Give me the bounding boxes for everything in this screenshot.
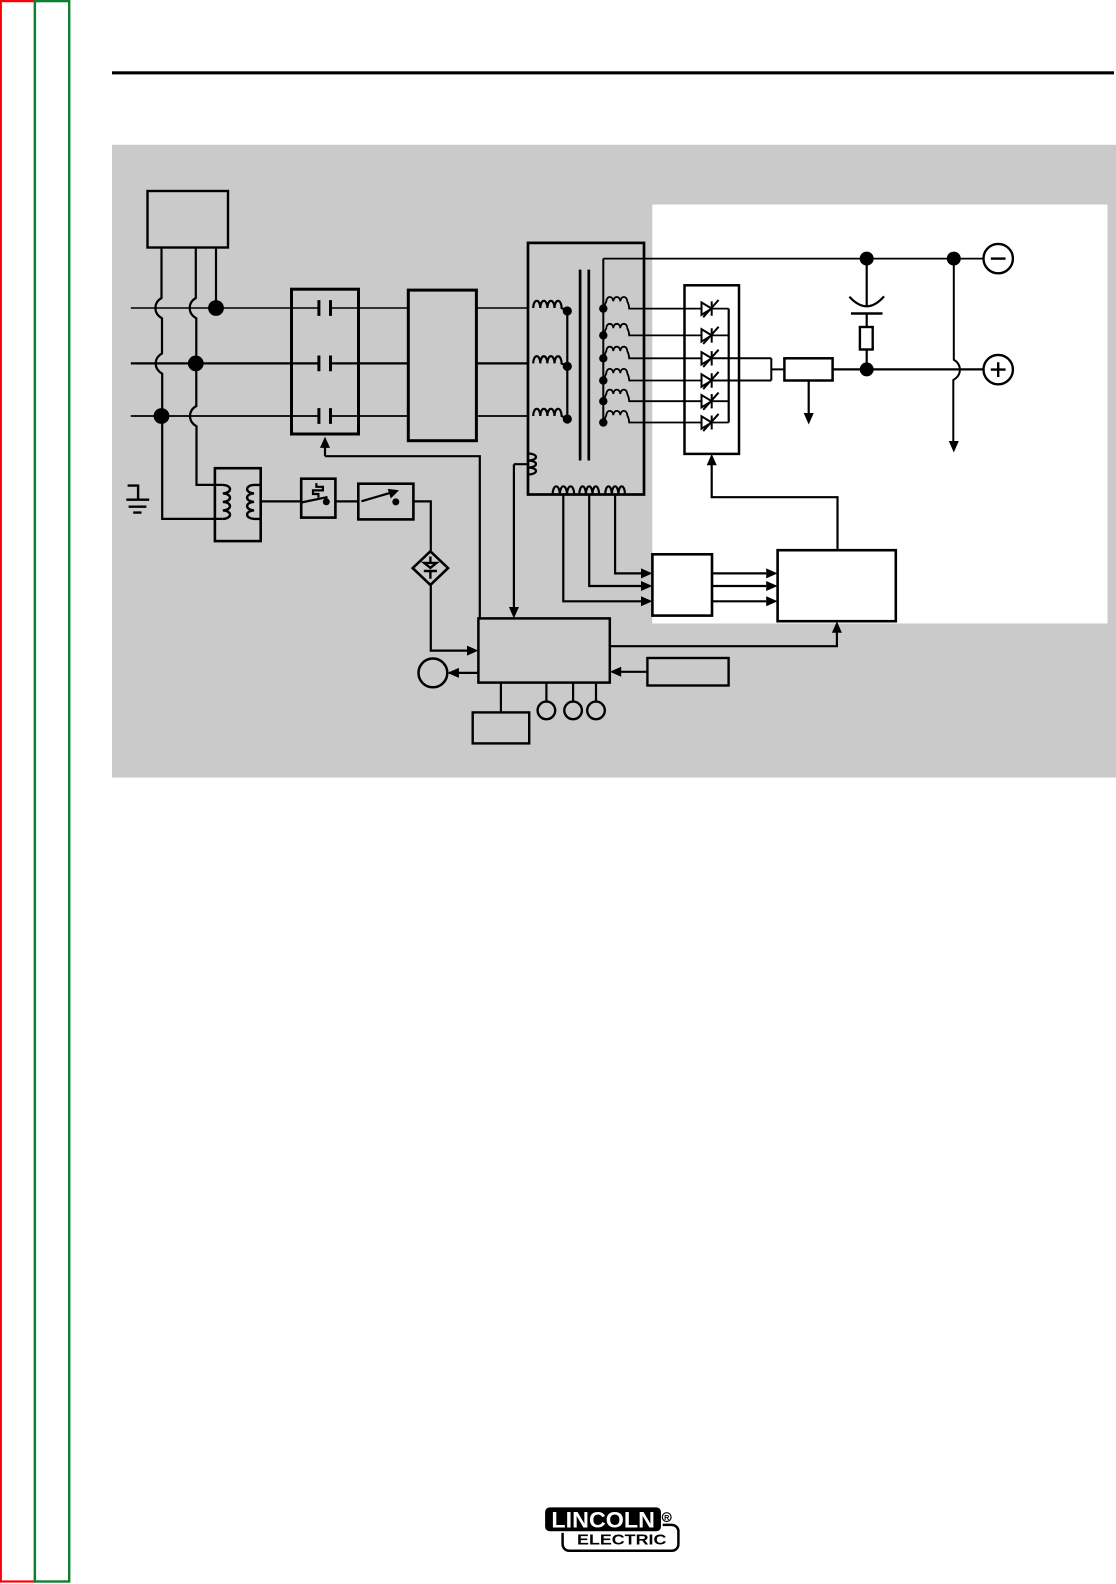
arrowhead link1 [766,568,777,578]
input plug box [148,191,229,248]
top horizontal rule [112,71,1114,74]
secondary winding S4 + lead to SCR4 [603,369,701,381]
arrowhead aux1 [641,596,652,606]
arrowhead into control board top [509,607,519,618]
Lincoln Electric logo: ELECTRIC white box [563,1525,679,1551]
wire: plug lead L2 (hops phase1, taps phase2, hops phase3) [190,248,223,485]
arrowhead into cap box bottom [320,437,330,448]
Lincoln Electric logo: LINCOLN black box (with white keyline) [545,1507,661,1531]
wire: aux lead 3 to interface box [615,495,641,574]
secondary winding S2 + lead to SCR2 [603,324,701,336]
wire: cap-switch control feed with up arrow into cap box [325,447,480,618]
arrowhead shunt sense [804,413,814,425]
snubber resistor [866,314,868,370]
interface box [652,554,712,615]
arrowhead aux2 [641,581,652,591]
primary winding P2 [533,356,567,366]
fan motor circle [419,659,448,688]
node: phase2 tap dot [189,357,203,371]
wire: scan coil lead down into control board (arrow) [513,464,515,608]
wire: stub to indicator 1 [545,683,547,702]
protection diode diamond [413,551,448,585]
wire: aux lead 2 to interface box [589,495,641,587]
primary winding P3 [533,409,567,419]
control transformer box [215,468,261,541]
SCR bridge box [685,285,740,454]
arrowhead switch blade [388,489,399,499]
node: secondary bus dots [599,304,607,426]
secondary common bus [602,259,604,423]
arrowhead link3 [766,596,777,606]
wire: control board output to firing circuit (arrow) [610,633,837,647]
SCR cathode bus [728,309,730,423]
SCR6 [702,414,729,431]
plus output terminal [984,355,1013,384]
wire: control secondary to thermostat [261,500,302,502]
node: negative bus dot at electrode drop [948,253,960,265]
arrowhead into motor [448,668,459,678]
wire: stub to indicator 3 [595,683,597,702]
wire: control board to mode box [500,683,502,713]
wire: firing gate lead up into SCR box [712,465,838,550]
wire: thermostat to power switch [335,500,358,502]
secondary winding S3 + lead to SCR3 [603,347,701,359]
auxiliary winding A1 on transformer bottom [553,486,575,494]
node: phase3 tap dot [155,409,169,423]
transformer core lines [580,270,589,461]
ground symbol [126,486,149,513]
control transformer secondary winding [247,485,261,519]
logo registered mark [662,1513,671,1522]
node: negative bus dot at snubber [861,253,873,265]
gray diagram panel [112,145,1116,778]
primary star link bar [566,311,568,419]
wire: switch to protection diamond [413,501,430,550]
node: primary link dot 1 [564,307,571,314]
arrowhead gate into SCR box bottom [707,454,717,465]
wire: control board to fan motor (arrow) [449,672,478,674]
capacitor C1 plates [319,300,331,316]
wire: interface to firing link 2 [712,585,766,587]
node: snubber to plus bus dot [861,363,873,375]
snubber capacitor flat plate [851,312,883,314]
wire: plug lead L3 (taps phase1) [215,248,217,309]
thermostat box [301,479,335,518]
main transformer box [528,243,644,495]
control transformer primary winding [223,485,230,519]
wire: negative bus from transformer to minus terminal [603,258,983,260]
arrowhead electrode [949,441,959,453]
wire: shunt sense lead with down arrow [808,381,810,415]
wire: interface to firing link 1 [712,572,766,574]
minus output terminal [984,244,1013,273]
white inset panel (output section) [652,205,1107,624]
scan coil on transformer left edge [514,454,536,475]
arrowhead link2 [766,581,777,591]
wire: electrode drop (hops over plus bus) with down arrow [953,259,960,442]
power switch box [358,484,413,520]
thermostat element zigzag [313,483,323,498]
svg-text:ELECTRIC: ELECTRIC [577,1532,667,1548]
snubber capacitor curved plate with lead [849,259,884,307]
secondary winding S1 + lead to SCR1 [603,297,701,309]
auxiliary winding A3 [605,486,625,494]
mode select box [473,712,530,743]
auxiliary winding A2 [579,486,599,494]
current shunt box [784,358,832,380]
capacitor C3 plates [319,408,331,424]
wire: phase1 line [131,307,528,309]
node: primary link dot 3 [564,415,571,422]
indicator lamp 1 [538,702,556,720]
thermostat blade and contact dot [301,497,327,502]
diode symbol inside diamond [424,557,437,579]
SCR2 [702,327,729,344]
remote control box [647,658,728,686]
indicator lamp 3 [587,702,605,720]
wire: stub to indicator 2 [572,683,574,702]
indicator lamp 2 [564,702,582,720]
input rectifier box [408,290,476,441]
node: phase1 tap dot [209,301,223,315]
arrowhead aux3 [641,568,652,578]
SCR3 [702,350,772,367]
power switch blade [361,493,390,502]
SCR1 [702,300,729,317]
secondary winding S5 + lead to SCR5 [603,390,701,402]
red page border column [1,1,35,1581]
wire: aux lead 1 to interface box [563,495,641,602]
SCR5 [702,393,729,410]
arrowhead into control board left [467,646,478,656]
control board box [478,618,609,682]
shunt link right vertical [771,358,784,380]
SCR4 [702,372,772,389]
arrowhead into control board right [610,667,621,677]
capacitor bank box [292,289,359,434]
arrowhead into firing box bottom [832,621,842,632]
primary winding P1 [533,301,567,311]
wire: plug lead L1 (hops over phase1,phase2, taps phase3) [155,248,222,519]
secondary winding S6 + lead to SCR6 [603,411,701,423]
svg-text:LINCOLN: LINCOLN [551,1507,655,1532]
svg-text:R: R [664,1513,670,1522]
wire: remote to control board (arrow) [621,671,647,673]
capacitor C2 plates [319,356,331,372]
node: switch output dot [392,498,399,505]
wire: phase3 line [131,415,528,417]
green page border column [35,1,69,1581]
node: primary link dot 2 [564,363,571,370]
wire: diamond to control board (arrow) [431,586,467,651]
wire: phase2 line [131,362,528,364]
firing circuit box [778,550,896,621]
wire: plus bus from shunt to plus terminal [833,368,984,370]
wire: interface to firing link 3 [712,600,766,602]
